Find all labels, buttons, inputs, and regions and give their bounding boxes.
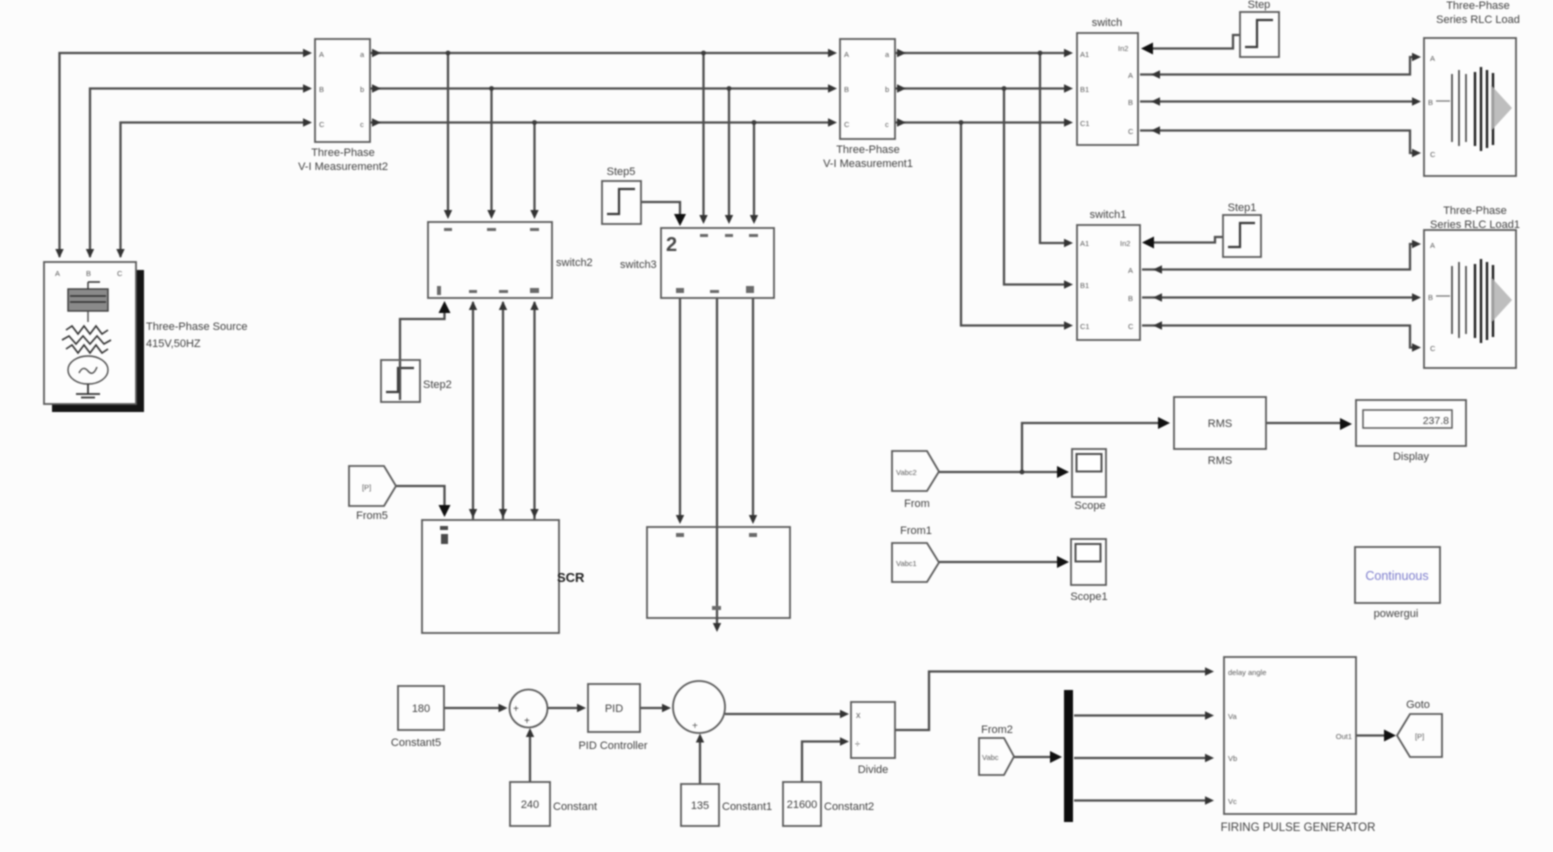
- svg-text:b: b: [885, 85, 889, 94]
- svg-text:Vc: Vc: [1228, 797, 1237, 806]
- svg-text:Constant: Constant: [553, 801, 597, 813]
- svg-text:A: A: [55, 269, 60, 278]
- svg-text:Out1: Out1: [1336, 732, 1352, 741]
- svg-text:Display: Display: [1393, 451, 1430, 463]
- svg-text:Continuous: Continuous: [1365, 569, 1428, 583]
- svg-text:240: 240: [521, 799, 539, 811]
- svg-text:A: A: [1128, 266, 1133, 275]
- svg-text:180: 180: [412, 703, 430, 715]
- svg-text:A: A: [1430, 54, 1435, 63]
- svg-text:237.8: 237.8: [1423, 415, 1449, 427]
- svg-text:Three-Phase Source: Three-Phase Source: [146, 321, 248, 333]
- svg-text:From1: From1: [900, 525, 932, 537]
- svg-text:In2: In2: [1118, 44, 1128, 53]
- svg-text:2: 2: [666, 234, 677, 256]
- svg-text:c: c: [360, 120, 364, 129]
- svg-text:C: C: [1128, 127, 1134, 136]
- svg-text:From: From: [904, 498, 930, 510]
- svg-text:powergui: powergui: [1374, 608, 1419, 620]
- svg-text:V-I Measurement1: V-I Measurement1: [823, 158, 913, 170]
- svg-text:switch2: switch2: [556, 257, 593, 269]
- svg-text:B: B: [319, 85, 324, 94]
- svg-text:Scope1: Scope1: [1070, 591, 1107, 603]
- svg-text:135: 135: [691, 800, 709, 812]
- svg-text:Three-Phase: Three-Phase: [1446, 0, 1510, 12]
- svg-text:delay angle: delay angle: [1228, 668, 1266, 677]
- svg-text:C: C: [844, 120, 850, 129]
- svg-text:From2: From2: [981, 724, 1013, 736]
- svg-text:switch3: switch3: [620, 259, 657, 271]
- svg-text:RMS: RMS: [1208, 418, 1232, 430]
- svg-text:A1: A1: [1080, 50, 1089, 59]
- svg-text:Three-Phase: Three-Phase: [1443, 205, 1507, 217]
- svg-text:B: B: [86, 269, 91, 278]
- svg-text:FIRING PULSE GENERATOR: FIRING PULSE GENERATOR: [1221, 822, 1376, 834]
- svg-text:Vabc2: Vabc2: [896, 468, 917, 477]
- svg-text:C: C: [1430, 150, 1436, 159]
- svg-text:+: +: [513, 704, 519, 715]
- svg-text:Step2: Step2: [423, 379, 452, 391]
- svg-text:Step: Step: [1248, 0, 1271, 11]
- svg-text:B1: B1: [1080, 281, 1089, 290]
- svg-text:RMS: RMS: [1208, 455, 1232, 467]
- svg-text:A1: A1: [1080, 239, 1089, 248]
- svg-text:B: B: [1128, 98, 1133, 107]
- svg-text:A: A: [1430, 241, 1435, 250]
- svg-text:PID: PID: [605, 703, 623, 715]
- svg-text:415V,50HZ: 415V,50HZ: [146, 338, 201, 350]
- svg-text:C: C: [319, 120, 325, 129]
- svg-text:Vb: Vb: [1228, 754, 1237, 763]
- svg-text:Series RLC Load: Series RLC Load: [1436, 14, 1520, 26]
- svg-text:Goto: Goto: [1406, 699, 1430, 711]
- svg-text:Three-Phase: Three-Phase: [836, 144, 900, 156]
- svg-text:A: A: [1128, 71, 1133, 80]
- svg-text:C: C: [1128, 322, 1134, 331]
- svg-text:B: B: [844, 85, 849, 94]
- svg-text:Step5: Step5: [607, 166, 636, 178]
- svg-text:Step1: Step1: [1228, 202, 1257, 214]
- svg-text:c: c: [885, 120, 889, 129]
- svg-text:From5: From5: [356, 510, 388, 522]
- svg-text:b: b: [360, 85, 364, 94]
- svg-text:Scope: Scope: [1074, 500, 1105, 512]
- svg-text:Constant5: Constant5: [391, 737, 441, 749]
- svg-text:switch1: switch1: [1090, 209, 1127, 221]
- svg-text:C: C: [117, 269, 123, 278]
- svg-text:Vabc1: Vabc1: [896, 559, 917, 568]
- svg-text:Three-Phase: Three-Phase: [311, 147, 375, 159]
- svg-text:C1: C1: [1080, 322, 1090, 331]
- svg-text:PID Controller: PID Controller: [578, 740, 647, 752]
- svg-text:B: B: [1128, 294, 1133, 303]
- svg-text:Vabc: Vabc: [982, 753, 999, 762]
- svg-text:B: B: [1428, 98, 1433, 107]
- svg-text:+: +: [692, 721, 698, 732]
- svg-text:[P]: [P]: [1415, 732, 1424, 741]
- svg-text:V-I Measurement2: V-I Measurement2: [298, 161, 388, 173]
- svg-text:C: C: [1430, 344, 1436, 353]
- svg-text:21600: 21600: [787, 799, 818, 811]
- svg-text:SCR: SCR: [557, 570, 585, 585]
- svg-text:B1: B1: [1080, 85, 1089, 94]
- svg-text:x: x: [856, 710, 861, 720]
- svg-text:Constant1: Constant1: [722, 801, 772, 813]
- svg-text:B: B: [1428, 293, 1433, 302]
- svg-text:Constant2: Constant2: [824, 801, 874, 813]
- svg-text:+: +: [524, 716, 530, 727]
- svg-text:A: A: [319, 50, 324, 59]
- svg-text:A: A: [844, 50, 849, 59]
- svg-text:switch: switch: [1092, 17, 1123, 29]
- svg-text:Va: Va: [1228, 712, 1237, 721]
- svg-text:Series RLC Load1: Series RLC Load1: [1430, 219, 1520, 231]
- svg-text:C1: C1: [1080, 119, 1090, 128]
- svg-text:÷: ÷: [855, 739, 860, 749]
- svg-text:In2: In2: [1120, 239, 1130, 248]
- svg-text:[P]: [P]: [362, 483, 371, 492]
- svg-text:Divide: Divide: [858, 764, 889, 776]
